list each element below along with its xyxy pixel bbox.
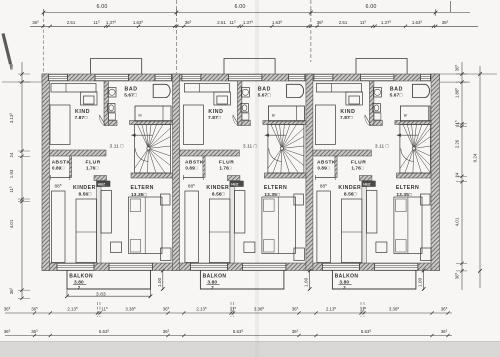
unit2 top wall window 1 sill lines <box>182 73 201 75</box>
unit3 balcony depth dimension 1.00 <box>423 270 425 291</box>
unit1 ELTERN nightstand top-right <box>161 194 171 205</box>
left chain tick y=199.0 <box>20 197 23 200</box>
bottom rowB tick 316.0 <box>314 334 317 337</box>
svg-text:1.00: 1.00 <box>304 277 309 287</box>
axis drop line at left wall (top) <box>43 13 45 73</box>
svg-text:ABSTK: ABSTK <box>317 160 336 166</box>
left extension line at wall top <box>2 81 42 83</box>
unit1 BAD bathtub <box>153 84 170 97</box>
unit2 ELTERN bed <box>262 197 296 254</box>
unit2 BAD bathtub <box>287 84 304 97</box>
top row2 tick at 105.6 <box>104 25 107 28</box>
svg-text:7.87□: 7.87□ <box>208 115 221 121</box>
unit3 ELTERN wardrobe <box>366 191 377 234</box>
unit1 wall KINDER/ELTERN <box>97 187 102 264</box>
unit1 HEIZ heater box <box>97 181 111 187</box>
unit2 bottom wall balcony door sill lines <box>242 262 286 264</box>
unit3 top wall window 3 sill lines <box>420 73 430 75</box>
unit1 balcony width dimension 3.83 <box>67 295 151 297</box>
axis line party wall 2/3 (top) <box>310 0 312 62</box>
axis line party wall 1/2 (top) <box>175 0 177 73</box>
bottom rowA jamb dash at 231.0 <box>230 302 232 317</box>
unit2 BAD washbasin <box>241 88 249 98</box>
bottom rowA tick 432.0 <box>430 311 433 314</box>
bottom rowB tick 299.0 <box>297 334 300 337</box>
bottom rowA tick 299.0 <box>297 311 300 314</box>
top row2 tick at 317.2 <box>316 25 319 28</box>
unit2 ELTERN nightstand left <box>244 242 255 253</box>
svg-text:9.24: 9.24 <box>473 153 478 162</box>
svg-text:6.00: 6.00 <box>366 4 377 10</box>
unit1 KIND door swing <box>100 115 106 126</box>
unit3 wall stub FLUR/landing <box>359 176 372 181</box>
svg-text:HEIZ: HEIZ <box>363 182 370 186</box>
unit2 top wall window 3 (white opening) <box>288 74 305 80</box>
unit3 BAD bathtub <box>413 84 430 97</box>
unit3 ABSTK door dimension ticks <box>315 175 317 180</box>
top row2 tick at 375.1 <box>374 25 377 28</box>
unit1 ELTERN nightstand bottom-right <box>161 248 172 261</box>
right wall inner extension line <box>440 81 470 83</box>
right outer 9.24 ticks <box>478 72 482 76</box>
svg-text:4.01: 4.01 <box>9 219 14 228</box>
right chain tick y=263.3 <box>460 262 463 265</box>
top row1 tick at 435.5 <box>434 11 438 15</box>
top row2 tick at 405.5 <box>404 25 407 28</box>
unit2 KINDER bed <box>185 191 199 263</box>
svg-text:BAD: BAD <box>258 87 271 93</box>
top row2 tick at 272.0 <box>270 25 273 28</box>
left chain line <box>21 62 23 298</box>
unit1 ABSTK door dimension ticks <box>49 175 51 180</box>
left chain tick y=151.0 <box>20 149 23 152</box>
bottom rowA tick 34.5 <box>33 311 36 314</box>
unit2 wall ABSTK/FLUR divider <box>203 156 205 178</box>
top row2 tick at 50.2 <box>49 25 52 28</box>
bottom rowB tick 448.0 <box>446 334 449 337</box>
unit3 wall ABSTK/FLUR divider <box>335 156 337 178</box>
unit1 bottom wall KINDER window (white opening) <box>57 263 94 270</box>
bottom rowA tick 364.0 <box>362 311 365 314</box>
top row1 tick at 310.9 <box>309 11 313 15</box>
svg-text:BAD: BAD <box>125 87 138 93</box>
svg-text:2.51: 2.51 <box>67 20 76 25</box>
svg-text:6.00: 6.00 <box>97 4 108 10</box>
top row2 tick at 308.2 <box>307 25 310 28</box>
unit1 wall above ABSTK/FLUR <box>50 150 107 156</box>
svg-text:KIND: KIND <box>208 109 223 115</box>
outer wall: top (hatched band) <box>42 74 440 81</box>
adjacent sheet corner (dark wedge) top-left <box>3 34 11 65</box>
bottom rowA jamb dash at 233.5 <box>233 302 235 317</box>
unit3 KIND bed <box>315 105 335 145</box>
unit1 wall stub below BAD <box>109 121 118 126</box>
unit3 wall KINDER/ELTERN <box>362 187 367 264</box>
right chain tick y=126.3 <box>460 125 463 128</box>
svg-text:HEIZ: HEIZ <box>98 182 105 186</box>
bottom rowB tick 50.3 <box>49 334 52 337</box>
bottom rowA jamb dash at 361.0 <box>360 302 362 317</box>
unit2 top wall window 2 sill lines <box>228 73 262 75</box>
unit3 KINDER wardrobe <box>341 199 362 263</box>
unit3 top wall window 1 (white opening) <box>314 74 333 80</box>
right chain tick y=270.9 <box>460 269 463 272</box>
unit1 BAD washbasin <box>108 88 116 98</box>
unit3 wall KIND/BAD (vertical) <box>369 81 374 126</box>
unit1 wall ABSTK/FLUR divider <box>70 156 72 178</box>
unit2 wall stub FLUR/landing <box>227 176 240 181</box>
svg-text:2: 2 <box>78 285 81 290</box>
svg-text:KINDER: KINDER <box>338 185 361 191</box>
unit1 top wall window 2 sill lines <box>95 73 129 75</box>
unit2 balcony depth dimension 1.00 <box>309 270 311 291</box>
unit2 top wall window 3 sill lines <box>288 73 305 75</box>
left chain tick y=156.3 <box>20 155 23 158</box>
outer wall: right (hatched band) <box>431 74 440 271</box>
unit2 wall above stairs <box>263 121 306 125</box>
unit3 BAD small fixture <box>374 113 381 120</box>
unit2 ELTERN nightstand top-right <box>294 194 304 205</box>
svg-text:ELTERN: ELTERN <box>396 185 419 191</box>
unit3 ELTERN bed <box>394 197 422 254</box>
unit2 ELTERN nightstand bottom-right <box>294 248 305 261</box>
unit2 wall KINDER/ELTERN <box>230 187 235 264</box>
right chain tick y=123.8 <box>460 122 463 125</box>
bottom rowA jamb dash at 100.0 <box>99 302 101 317</box>
top dimension row2 line <box>30 25 478 27</box>
left chain tick y=201.5 <box>20 200 23 203</box>
svg-text:3.11 □: 3.11 □ <box>110 143 124 149</box>
svg-text:4.01: 4.01 <box>455 217 460 226</box>
svg-text:ABSTK: ABSTK <box>185 160 204 166</box>
left chain tick y=298.3 <box>20 297 23 300</box>
left chain tick y=74.0 <box>20 72 23 75</box>
photo edge gray band at bottom <box>0 342 500 357</box>
svg-text:2.26: 2.26 <box>455 139 460 148</box>
bottom rowA jamb dash at 97.5 <box>97 302 99 317</box>
scan fold faint vertical streak <box>255 0 259 357</box>
bottom rowB line <box>5 335 452 337</box>
svg-text:BALKON: BALKON <box>335 273 359 279</box>
unit1 BAD shower rect (Br) <box>135 106 171 121</box>
bottom rowA tick 233.5 <box>232 311 235 314</box>
unit3 top wall window 3 (white opening) <box>420 74 430 80</box>
bottom rowA line <box>5 312 452 314</box>
unit1 balcony outline <box>67 271 151 290</box>
svg-text:5.67□: 5.67□ <box>124 93 137 99</box>
unit2 winder staircase <box>268 125 304 174</box>
unit1 top wall window 2 (white opening) <box>95 74 129 80</box>
unit2 BAD small fixture <box>242 113 249 120</box>
svg-text:BALKON: BALKON <box>203 273 227 279</box>
unit1 wall stub FLUR/landing <box>94 176 107 181</box>
unit2 BAD shower rect (Br) <box>268 106 304 121</box>
svg-text:5.67□: 5.67□ <box>390 93 403 99</box>
unit1 KIND bed <box>50 105 70 145</box>
unit3 BAD wc <box>373 104 381 113</box>
unit2 top wall window 2 (white opening) <box>228 74 262 80</box>
unit1 bottom wall KINDER window sill lines <box>57 262 94 264</box>
bottom rowA jamb dash at 364.0 <box>363 302 365 317</box>
unit3 top wall window 2 sill lines <box>360 73 394 75</box>
bottom rowB tick 168.0 <box>166 334 169 337</box>
unit2 bottom wall KINDER window sill lines <box>190 262 227 264</box>
top row2 tick at 138.5 <box>137 25 140 28</box>
svg-text:KINDER: KINDER <box>206 185 229 191</box>
svg-text:24: 24 <box>455 172 460 177</box>
party wall unit1/unit2 <box>173 74 180 271</box>
unit2 wall KIND/BAD (vertical) <box>237 81 242 126</box>
svg-text:ELTERN: ELTERN <box>131 185 154 191</box>
unit2 wall below stairs <box>264 173 306 178</box>
unit3 wall below stairs <box>396 173 431 178</box>
svg-text:6.00: 6.00 <box>235 4 246 10</box>
top dimension row1 line <box>44 12 471 14</box>
unit1 bottom wall balcony door sill lines <box>109 262 153 264</box>
top row2 tick at 372.6 <box>371 25 374 28</box>
bottom rowA tick 50.3 <box>49 311 52 314</box>
bottom rowA tick 448.0 <box>446 311 449 314</box>
svg-text:1.76□: 1.76□ <box>86 166 98 171</box>
top row2 tick at 176.9 <box>175 25 178 28</box>
top row2 tick at 435.7 <box>434 25 437 28</box>
top row2 tick at 43.0 <box>41 25 44 28</box>
unit3 wall above ABSTK/FLUR <box>313 150 372 156</box>
svg-text:8.56□: 8.56□ <box>212 192 225 198</box>
unit1 wall KIND/BAD (vertical) <box>104 81 109 126</box>
right chain tick y=176.3 <box>460 175 463 178</box>
top row1 tick at 43.5 <box>42 11 46 15</box>
unit2 wall stub below BAD <box>242 121 251 126</box>
unit3 bottom wall KINDER window sill lines <box>322 262 359 264</box>
svg-text:1.76□: 1.76□ <box>219 166 231 171</box>
unit1 ABSTK door wall line <box>50 177 70 179</box>
unit3 BAD shower rect (Br) <box>400 106 430 121</box>
unit3 KIND desk <box>346 92 363 105</box>
top row2 tick at 183.7 <box>182 25 185 28</box>
unit3 KIND wardrobe <box>316 84 361 93</box>
unit3 upper-balcony outline above top wall <box>356 59 407 75</box>
unit2 KINDER wardrobe <box>209 199 230 263</box>
unit3 wall above stairs <box>395 121 431 125</box>
outer wall: left (hatched band) <box>42 74 50 271</box>
bottom rowA tick 168.0 <box>166 311 169 314</box>
unit3 HEIZ heater box <box>362 181 376 187</box>
svg-text:1.93: 1.93 <box>9 169 14 178</box>
bottom rowA tick 183.8 <box>182 311 185 314</box>
unit1 BAD small fixture <box>109 113 116 120</box>
unit1 ELTERN bed <box>129 197 163 254</box>
svg-text:BAD: BAD <box>390 87 403 93</box>
svg-text:24: 24 <box>9 152 14 157</box>
top row2 tick at 433.5 <box>432 25 435 28</box>
unit2 balcony outline <box>200 271 284 290</box>
svg-text:7.87□: 7.87□ <box>340 115 353 121</box>
unit3 balcony outline <box>332 271 416 290</box>
unit3 bottom wall balcony door sill lines <box>374 262 418 264</box>
page edge line <box>0 341 500 343</box>
unit1 BAD wc <box>108 104 116 113</box>
svg-text:0.89□: 0.89□ <box>185 166 197 171</box>
unit3 ELTERN nightstand bottom-right <box>421 248 432 261</box>
unit1 winder staircase <box>135 125 171 174</box>
unit3 top wall window 2 (white opening) <box>360 74 394 80</box>
unit2 upper-balcony outline above top wall <box>224 59 275 75</box>
unit2 bottom wall KINDER window (white opening) <box>190 263 227 270</box>
svg-text:5.67□: 5.67□ <box>258 93 271 99</box>
unit2 HEIZ heater box <box>230 181 244 187</box>
top row2 tick at 241.6 <box>240 25 243 28</box>
unit1 bottom wall balcony door (white opening) <box>109 263 153 270</box>
bottom rowA tick 97.5 <box>96 311 99 314</box>
unit3 ABSTK door wall line <box>315 177 335 179</box>
svg-text:ABSTK: ABSTK <box>52 160 71 166</box>
unit3 winder staircase <box>400 125 431 174</box>
svg-text:FLUR: FLUR <box>86 160 101 166</box>
unit2 ABSTK door wall line <box>183 177 203 179</box>
right inner chain line <box>461 62 463 290</box>
unit3 wall stub below BAD <box>374 121 383 126</box>
unit3 ELTERN nightstand top-right <box>421 194 431 205</box>
bottom rowA tick 100.0 <box>98 311 101 314</box>
top row1 tick at 176.4 <box>175 11 179 15</box>
outer wall: bottom (hatched band) <box>42 263 440 271</box>
unit2 KIND bed <box>183 105 203 145</box>
bottom rowB tick 432.0 <box>430 334 433 337</box>
svg-text:ELTERN: ELTERN <box>264 185 287 191</box>
unit1 wall above stairs <box>130 121 173 125</box>
unit1 KIND desk <box>81 92 98 105</box>
unit1 top wall window 1 (white opening) <box>49 74 68 80</box>
unit1 top wall window 3 sill lines <box>155 73 172 75</box>
unit2 wall above ABSTK/FLUR <box>180 150 240 156</box>
top row2 tick at 310.4 <box>309 25 312 28</box>
unit2 ABSTK door dimension ticks <box>183 175 185 180</box>
unit3 top wall window 1 sill lines <box>314 73 333 75</box>
svg-text:FLUR: FLUR <box>219 160 234 166</box>
svg-text:0.89□: 0.89□ <box>52 166 64 171</box>
axis tick right end (top) <box>450 1 452 12</box>
svg-text:8.56□: 8.56□ <box>344 192 357 198</box>
left chain tick y=290.2 <box>20 289 23 292</box>
unit2 top wall window 1 (white opening) <box>182 74 201 80</box>
right chain tick y=74.0 <box>460 72 463 75</box>
svg-text:1.76□: 1.76□ <box>351 166 363 171</box>
svg-text:2.51: 2.51 <box>339 20 348 25</box>
unit1 ELTERN wardrobe <box>101 191 112 234</box>
right wall top extension line <box>440 73 497 75</box>
unit2 bottom wall balcony door (white opening) <box>242 263 286 270</box>
bottom rowA tick 316.0 <box>314 311 317 314</box>
svg-text:7.87□: 7.87□ <box>75 115 88 121</box>
unit3 ELTERN nightstand left <box>376 242 387 253</box>
right chain tick y=181.6 <box>460 180 463 183</box>
unit3 KINDER bed <box>317 191 331 263</box>
unit1 top wall window 3 (white opening) <box>155 74 172 80</box>
svg-text:8.56□: 8.56□ <box>79 192 92 198</box>
unit1 KINDER bed <box>52 191 66 263</box>
top row2 tick at 108.1 <box>107 25 110 28</box>
unit3 bottom wall KINDER window (white opening) <box>322 263 359 270</box>
svg-text:KINDER: KINDER <box>73 185 96 191</box>
svg-text:1.00: 1.00 <box>418 277 423 287</box>
unit3 BAD washbasin <box>373 88 381 98</box>
unit2 ELTERN wardrobe <box>234 191 245 234</box>
unit1 balcony depth dimension 1.00 <box>162 270 164 291</box>
bottom rowA tick 231.0 <box>229 311 232 314</box>
svg-text:3.11 □: 3.11 □ <box>375 143 389 149</box>
svg-text:3.11 □: 3.11 □ <box>243 143 257 149</box>
unit2 KIND wardrobe <box>184 84 229 93</box>
svg-text:BALKON: BALKON <box>69 273 93 279</box>
unit3 bottom wall balcony door (white opening) <box>374 263 418 270</box>
right outer 9.24 line <box>479 66 481 288</box>
svg-text:1.00: 1.00 <box>157 277 162 287</box>
svg-text:HEIZ: HEIZ <box>231 182 238 186</box>
svg-text:FLUR: FLUR <box>351 160 366 166</box>
svg-text:2.51: 2.51 <box>217 20 226 25</box>
svg-text:KIND: KIND <box>340 109 355 115</box>
unit1 KINDER wardrobe <box>76 199 97 263</box>
unit2 KIND desk <box>214 92 231 105</box>
bottom rowA tick 361.0 <box>359 311 362 314</box>
svg-text:KIND: KIND <box>75 109 90 115</box>
unit3 KIND door swing <box>365 115 371 126</box>
top row2 tick at 174.7 <box>173 25 176 28</box>
top row2 tick at 239.1 <box>238 25 241 28</box>
right chain tick y=82.1 <box>460 80 463 83</box>
bottom rowB tick 183.8 <box>182 334 185 337</box>
unit1 KIND wardrobe <box>51 84 96 93</box>
unit1 ELTERN nightstand left <box>111 242 122 253</box>
unit2 KIND door swing <box>233 115 239 126</box>
unit2 BAD wc <box>241 104 249 113</box>
svg-text:3.83: 3.83 <box>96 291 106 297</box>
unit1 top wall window 1 sill lines <box>49 73 68 75</box>
unit1 wall below stairs <box>131 173 173 178</box>
svg-text:0.89□: 0.89□ <box>317 166 329 171</box>
unit1 upper-balcony outline above top wall <box>91 59 142 75</box>
left chain tick y=82.0 <box>20 80 23 83</box>
bottom rowB tick 34.5 <box>33 334 36 337</box>
party wall unit2/unit3 <box>306 74 313 271</box>
